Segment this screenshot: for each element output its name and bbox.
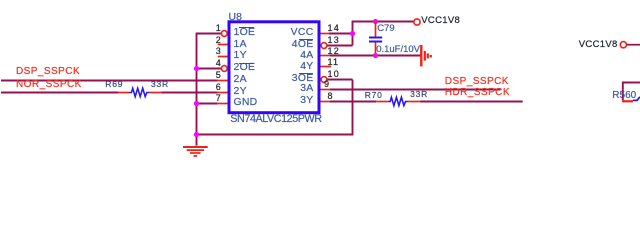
pin number 6 [216,83,221,92]
overline 2OE [239,63,254,64]
junction C79 bottom [373,53,378,58]
wire pin 10 [327,79,353,81]
value 0.1uF/10V [376,45,420,55]
wire DSP_SSPCK right [330,89,501,91]
designator R560 [612,91,636,101]
pin name VCC [291,28,314,38]
pin number 9 [324,80,329,89]
pin number 2 [216,36,221,45]
pin 13 bubble [321,43,327,49]
pin 6 stub [218,92,228,94]
pin name 4OE [292,40,314,50]
overline 3OE [299,73,314,74]
part number SN74ALVC125PWR [230,114,321,125]
power symbol VCC1V8 far right [620,42,640,48]
pin 9 stub [321,89,331,91]
wire pin 12 to ground [330,55,421,57]
resistor R70 [376,97,420,105]
net label NOR_SSPCK left [16,80,82,90]
label R70 [365,91,383,100]
label R69 [105,80,123,89]
ground sideways right [421,45,431,66]
pin number 11 [328,58,340,67]
pin 11 stub [321,66,332,68]
wire HDR_SSPCK right [420,101,523,103]
pin 3 stub [218,56,228,58]
overline 1OE [239,27,254,28]
pin number 5 [216,71,221,80]
pin 8 stub [321,101,331,103]
pin name 3OE [292,74,314,84]
designator U8 [229,12,242,23]
power symbol VCC1V8 top [414,19,420,25]
pin number 4 [216,59,221,68]
pin name 4A [300,51,313,61]
ground GND left [183,147,208,156]
pin name 2A [234,75,247,85]
pin name 2OE [234,63,256,73]
resistor R69 [118,88,162,96]
capacitor C79 [369,22,382,57]
wire left OE/GND rail [196,34,198,146]
pin 2 stub [218,44,228,46]
pin number 7 [216,94,221,103]
wire R69 to pin 6 [162,92,218,94]
IC U8 body [229,22,319,113]
net label DSP_SSPCK left [16,67,80,77]
pin 7 stub [218,103,228,105]
junction pin 7 rail [194,101,199,106]
junction C79 top [373,19,378,24]
pin 4 bubble [221,66,227,72]
wire bottom rail [197,80,353,135]
wire DSP_SSPCK left to pin 5 [1,80,218,82]
junction pin 14 [350,31,355,36]
pin number 13 [328,36,340,45]
wire pin 8 to R70 [330,101,376,103]
pin 5 stub [218,80,228,82]
pin number 1 [216,24,221,33]
pin name 3A [300,84,313,94]
value 33R of R69 [151,80,169,89]
net label VCC1V8 top [421,16,460,26]
pin 12 stub [321,55,331,57]
wire pin 13 [327,45,353,47]
resistor R560 body (cut off) [622,83,640,102]
designator C79 [377,24,394,34]
pin number 3 [216,47,221,56]
pin name 1A [234,40,247,50]
wire pin 1 [196,33,222,35]
junction pin 4 rail [194,66,199,71]
net label VCC1V8 far right [579,40,618,50]
wire pin 4 [197,68,222,70]
overline 4OE [299,39,314,40]
value 33R of R70 [410,90,428,99]
wire VCC riser [353,22,414,46]
pin 14 stub [321,33,330,35]
wire pin 7 [197,103,218,105]
net label DSP_SSPCK right [445,77,509,87]
pin name 2Y [234,87,247,97]
pin name GND [234,98,258,108]
junction bottom rail [194,132,199,137]
wire pin 14 to VCC rail [329,33,353,35]
pin number 12 [328,47,340,56]
net label HDR_SSPCK right [445,88,510,98]
pin number 14 [328,24,340,33]
pin name 4Y [300,62,313,72]
pin name 3Y [300,96,313,106]
pin 10 bubble [321,77,327,83]
pin number 10 [328,70,340,79]
pin name 1OE [234,28,256,38]
pin number 8 [328,92,333,101]
pin name 1Y [234,51,247,61]
pin 1 bubble [221,31,227,37]
wire NOR_SSPCK left segment [1,92,118,94]
